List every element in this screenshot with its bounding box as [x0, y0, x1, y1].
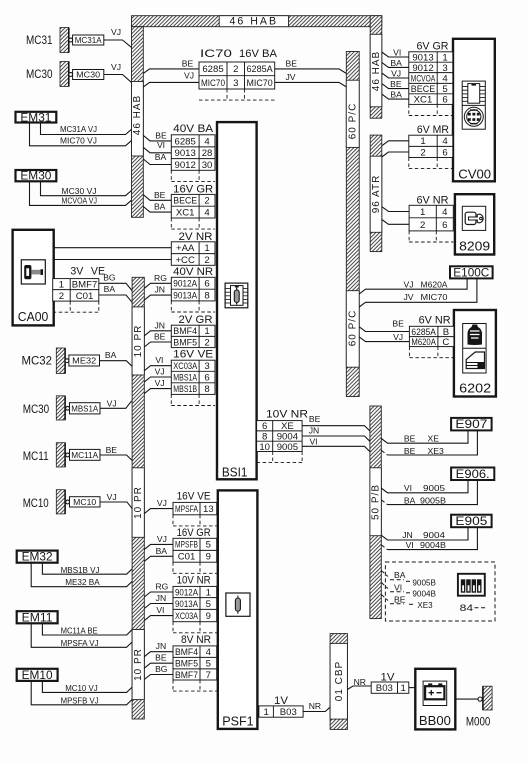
svg-text:BECE: BECE [411, 84, 435, 95]
svg-text:1: 1 [420, 136, 425, 147]
svg-text:JN: JN [156, 593, 167, 603]
svg-text:8209: 8209 [459, 238, 490, 253]
svg-text:VI: VI [393, 48, 401, 58]
svg-text:E907: E907 [455, 419, 487, 431]
svg-text:6V GR: 6V GR [417, 40, 449, 52]
svg-text:E100C: E100C [453, 267, 489, 279]
svg-text:BE: BE [155, 130, 167, 140]
svg-text:MC11A: MC11A [71, 450, 98, 460]
svg-text:BA: BA [394, 570, 406, 580]
svg-text:2: 2 [204, 337, 209, 348]
svg-text:2: 2 [233, 64, 238, 75]
svg-text:BE: BE [392, 319, 404, 329]
svg-text:MC30: MC30 [26, 67, 53, 81]
svg-text:VI: VI [157, 140, 165, 150]
svg-text:5: 5 [206, 599, 211, 610]
svg-text:MCVOA VJ: MCVOA VJ [62, 196, 98, 206]
svg-text:6: 6 [204, 372, 209, 383]
svg-text:8: 8 [262, 431, 267, 442]
svg-text:C01: C01 [76, 291, 94, 302]
svg-text:RG: RG [155, 582, 168, 592]
svg-text:MIC70: MIC70 [247, 78, 273, 89]
svg-text:XC1: XC1 [176, 208, 195, 219]
svg-text:BA: BA [404, 495, 416, 505]
svg-text:9012: 9012 [412, 63, 433, 74]
svg-text:6285: 6285 [202, 64, 223, 75]
svg-text:10 PR: 10 PR [133, 648, 144, 681]
svg-text:+AA: +AA [176, 243, 195, 254]
svg-text:VJ: VJ [111, 62, 121, 72]
svg-text:1: 1 [263, 707, 268, 718]
svg-text:1: 1 [420, 207, 425, 218]
svg-text:JV: JV [404, 292, 414, 302]
svg-text:4: 4 [442, 73, 448, 84]
svg-text:5: 5 [206, 659, 211, 670]
svg-text:1V: 1V [381, 671, 396, 683]
svg-text:XE3: XE3 [428, 446, 444, 456]
svg-text:16V BA: 16V BA [239, 48, 278, 60]
svg-text:MBS1A: MBS1A [71, 403, 98, 413]
svg-text:EM11: EM11 [22, 612, 53, 624]
svg-text:BE: BE [309, 414, 321, 424]
svg-text:MIC70: MIC70 [201, 78, 225, 89]
svg-text:1V: 1V [274, 695, 289, 707]
svg-text:M620A: M620A [421, 279, 448, 289]
svg-text:01 CBP: 01 CBP [334, 661, 345, 701]
svg-text:EM10: EM10 [22, 670, 53, 682]
svg-text:MC30: MC30 [23, 402, 50, 416]
svg-text:MC32: MC32 [22, 353, 53, 367]
svg-text:B03: B03 [280, 707, 297, 718]
svg-text:9005: 9005 [423, 483, 445, 493]
svg-text:28: 28 [202, 148, 213, 159]
svg-text:NR: NR [354, 677, 366, 687]
svg-text:40V BA: 40V BA [173, 123, 214, 135]
svg-text:6202: 6202 [459, 381, 491, 396]
svg-text:MCVOA: MCVOA [411, 73, 436, 84]
svg-text:30: 30 [202, 160, 213, 171]
svg-text:9013A: 9013A [175, 599, 198, 610]
svg-text:16V VE: 16V VE [177, 490, 211, 502]
svg-text:EM31: EM31 [20, 112, 51, 124]
svg-text:ME32 BA: ME32 BA [65, 577, 100, 587]
svg-text:VJ: VJ [393, 332, 403, 342]
svg-text:10: 10 [259, 442, 270, 453]
svg-text:IC70: IC70 [200, 48, 232, 60]
svg-text:VJ: VJ [157, 534, 167, 544]
svg-text:BE: BE [390, 79, 402, 89]
svg-text:M620A: M620A [411, 337, 436, 348]
svg-text:16V GR: 16V GR [177, 527, 211, 539]
svg-text:XE: XE [428, 434, 440, 444]
svg-text:E905: E905 [455, 516, 487, 528]
svg-text:MBS1A: MBS1A [173, 372, 197, 383]
svg-text:9012A: 9012A [175, 587, 198, 598]
svg-text:MC31A VJ: MC31A VJ [60, 124, 97, 134]
svg-text:MPSFA: MPSFA [175, 504, 198, 515]
svg-text:96 ATR: 96 ATR [371, 175, 382, 214]
svg-text:BMF7: BMF7 [72, 280, 98, 291]
svg-text:B03: B03 [376, 683, 393, 694]
svg-text:VI: VI [406, 540, 414, 550]
svg-text:BMF5: BMF5 [175, 659, 198, 670]
svg-text:BE: BE [154, 190, 166, 200]
svg-text:8: 8 [204, 384, 209, 395]
svg-text:MC10 VJ: MC10 VJ [65, 683, 98, 693]
svg-text:9012A: 9012A [173, 279, 197, 290]
svg-text:BSI1: BSI1 [222, 465, 248, 480]
svg-text:46 HAB: 46 HAB [230, 16, 279, 28]
svg-text:9: 9 [206, 611, 211, 622]
svg-text:JN: JN [402, 530, 413, 540]
svg-text:BA: BA [156, 546, 168, 556]
svg-text:9005: 9005 [277, 442, 298, 453]
svg-text:2: 2 [420, 147, 425, 158]
svg-text:16V GR: 16V GR [173, 184, 213, 196]
svg-text:3: 3 [233, 78, 238, 89]
svg-text:XE3: XE3 [417, 600, 432, 610]
svg-text:MPSFA VJ: MPSFA VJ [61, 638, 99, 648]
svg-text:MIC70 VJ: MIC70 VJ [60, 136, 97, 146]
svg-text:6: 6 [442, 95, 447, 106]
svg-text:10 PR: 10 PR [133, 325, 144, 358]
svg-text:BE: BE [404, 434, 416, 444]
svg-text:VJ: VJ [391, 69, 401, 79]
svg-text:BE: BE [394, 595, 406, 605]
svg-text:VI: VI [309, 437, 317, 447]
svg-text:+CC: +CC [175, 255, 195, 266]
svg-text:BE: BE [154, 332, 166, 342]
svg-text:46 HAB: 46 HAB [371, 51, 382, 91]
svg-text:MBS1B: MBS1B [173, 384, 197, 395]
svg-text:VJ: VJ [184, 71, 194, 81]
svg-text:BA: BA [105, 350, 117, 360]
svg-text:MC30: MC30 [76, 70, 100, 80]
svg-text:MC31A: MC31A [75, 35, 102, 45]
svg-text:4: 4 [206, 647, 212, 658]
svg-text:BE: BE [404, 446, 416, 456]
svg-text:2: 2 [204, 196, 209, 207]
svg-text:4: 4 [204, 136, 210, 147]
svg-text:VJ: VJ [155, 378, 165, 388]
svg-text:13: 13 [203, 504, 214, 515]
svg-text:XC03A: XC03A [175, 611, 198, 622]
svg-text:10V NR: 10V NR [177, 575, 211, 587]
svg-text:MPSFB: MPSFB [175, 540, 198, 551]
svg-text:3: 3 [442, 63, 447, 74]
svg-text:6V NR: 6V NR [419, 315, 451, 327]
svg-text:40V NR: 40V NR [173, 266, 213, 278]
svg-text:PSF1: PSF1 [222, 713, 254, 728]
svg-text:BMF7: BMF7 [175, 670, 198, 681]
svg-text:9004: 9004 [423, 530, 445, 540]
svg-text:BMF5: BMF5 [173, 337, 197, 348]
svg-text:MIC70: MIC70 [421, 292, 448, 302]
svg-text:60 P/C: 60 P/C [348, 310, 359, 347]
svg-text:6: 6 [442, 147, 447, 158]
svg-text:C: C [442, 337, 449, 348]
svg-text:JN: JN [156, 641, 167, 651]
svg-text:VI: VI [155, 355, 163, 365]
svg-text:EM30: EM30 [20, 171, 51, 183]
svg-text:2: 2 [420, 220, 425, 231]
svg-text:BE: BE [286, 59, 298, 69]
svg-text:BE: BE [106, 445, 118, 455]
svg-text:JN: JN [154, 320, 165, 330]
svg-text:BMF4: BMF4 [175, 647, 199, 658]
svg-text:8V NR: 8V NR [181, 634, 211, 646]
svg-text:3: 3 [204, 361, 209, 372]
svg-text:1: 1 [206, 587, 211, 598]
svg-text:7: 7 [206, 670, 211, 681]
svg-text:46 HAB: 46 HAB [132, 95, 143, 135]
svg-text:NR: NR [309, 701, 321, 711]
svg-text:VJ: VJ [404, 279, 414, 289]
svg-text:MC11A BE: MC11A BE [61, 626, 98, 636]
svg-text:5: 5 [206, 540, 211, 551]
svg-text:JN: JN [309, 426, 320, 436]
svg-text:8: 8 [204, 290, 209, 301]
svg-text:ME32: ME32 [72, 356, 96, 366]
svg-text:C01: C01 [178, 552, 196, 563]
svg-text:10V NR: 10V NR [266, 409, 308, 421]
svg-text:JN: JN [154, 285, 165, 295]
svg-text:2: 2 [204, 255, 209, 266]
svg-text:BA: BA [390, 58, 402, 68]
svg-text:VI: VI [404, 483, 412, 493]
svg-text:MC10: MC10 [23, 496, 49, 510]
svg-text:6: 6 [204, 279, 209, 290]
svg-text:BE: BE [155, 653, 167, 663]
svg-text:4: 4 [204, 208, 210, 219]
svg-text:9004: 9004 [277, 431, 299, 442]
svg-text:1: 1 [442, 52, 447, 63]
svg-text:60 P/C: 60 P/C [348, 103, 359, 140]
svg-text:MC31: MC31 [26, 33, 53, 47]
svg-text:CA00: CA00 [18, 309, 49, 324]
svg-text:RG: RG [154, 273, 167, 283]
svg-text:EM32: EM32 [22, 552, 53, 564]
svg-text:1: 1 [204, 326, 209, 337]
svg-text:9004B: 9004B [412, 589, 436, 599]
svg-text:MC10: MC10 [73, 497, 96, 507]
svg-text:4: 4 [442, 207, 448, 218]
svg-text:BA: BA [155, 152, 167, 162]
svg-text:VI: VI [394, 582, 402, 592]
svg-text:BA: BA [390, 90, 402, 100]
svg-text:2V NR: 2V NR [179, 231, 213, 243]
svg-text:9005B: 9005B [412, 577, 436, 587]
svg-text:6285A: 6285A [247, 64, 274, 75]
svg-text:BG: BG [103, 273, 116, 283]
svg-text:VJ: VJ [107, 492, 117, 502]
svg-text:VJ: VJ [155, 367, 165, 377]
svg-text:2V GR: 2V GR [179, 314, 213, 326]
svg-text:5: 5 [442, 84, 447, 95]
svg-text:BA: BA [154, 202, 166, 212]
svg-text:VI: VI [156, 605, 164, 615]
svg-text:XC1: XC1 [414, 95, 433, 106]
svg-text:BG: BG [155, 664, 168, 674]
svg-text:MPSFB VJ: MPSFB VJ [61, 695, 99, 705]
svg-text:4: 4 [442, 136, 448, 147]
svg-text:VJ: VJ [107, 399, 117, 409]
svg-text:50 P/B: 50 P/B [371, 484, 382, 520]
svg-text:16V VE: 16V VE [173, 348, 213, 360]
svg-text:9012: 9012 [175, 160, 196, 171]
svg-text:MBS1B VJ: MBS1B VJ [61, 565, 100, 575]
svg-text:M000: M000 [466, 715, 491, 729]
svg-text:VJ: VJ [111, 27, 121, 37]
svg-text:6: 6 [442, 220, 447, 231]
svg-text:MC11: MC11 [23, 449, 49, 463]
svg-text:BE: BE [182, 59, 194, 69]
svg-text:9013: 9013 [412, 52, 433, 63]
svg-text:VJ: VJ [157, 498, 167, 508]
svg-text:6V MR: 6V MR [417, 124, 449, 136]
svg-text:10 PR: 10 PR [133, 486, 144, 519]
svg-text:JV: JV [286, 72, 296, 82]
svg-text:9013A: 9013A [173, 290, 197, 301]
svg-text:1: 1 [400, 683, 405, 694]
svg-text:BB00: BB00 [419, 713, 451, 728]
svg-text:2: 2 [59, 291, 64, 302]
svg-text:9: 9 [206, 552, 211, 563]
svg-text:BA: BA [104, 284, 116, 294]
svg-text:84: 84 [460, 603, 474, 614]
svg-text:3V: 3V [70, 266, 84, 278]
svg-text:BECE: BECE [173, 196, 197, 207]
svg-text:6285: 6285 [175, 136, 196, 147]
svg-text:6V NR: 6V NR [417, 195, 449, 207]
svg-text:XC03A: XC03A [173, 361, 197, 372]
svg-text:E906.: E906. [456, 469, 490, 481]
svg-text:BMF4: BMF4 [173, 326, 197, 337]
svg-text:9013: 9013 [175, 148, 196, 159]
svg-text:CV00: CV00 [458, 167, 491, 182]
svg-text:9005B: 9005B [420, 495, 446, 505]
svg-text:9004B: 9004B [420, 540, 446, 550]
svg-text:1: 1 [204, 243, 209, 254]
svg-text:1: 1 [59, 280, 64, 291]
